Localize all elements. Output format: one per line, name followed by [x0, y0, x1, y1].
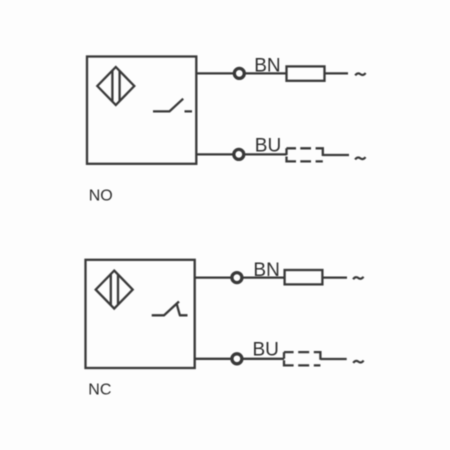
svg-text:BN: BN [254, 56, 280, 77]
svg-text:NC: NC [88, 382, 111, 399]
svg-text:BN: BN [253, 260, 279, 281]
svg-text:BU: BU [253, 340, 279, 361]
svg-text:BU: BU [255, 135, 281, 156]
svg-text:NO: NO [89, 187, 113, 204]
